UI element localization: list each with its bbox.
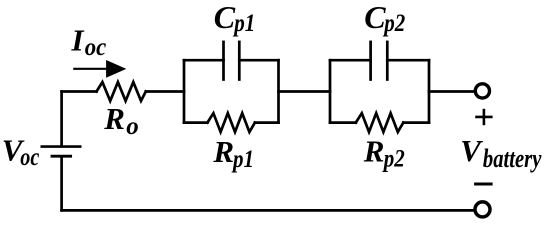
svg-text:p2: p2 xyxy=(382,146,405,173)
svg-text:battery: battery xyxy=(483,144,542,173)
svg-text:p1: p1 xyxy=(233,10,256,37)
svg-text:p1: p1 xyxy=(231,146,254,173)
svg-text:o: o xyxy=(126,113,139,140)
svg-text:oc: oc xyxy=(20,144,39,171)
svg-text:C: C xyxy=(214,0,236,35)
svg-text:R: R xyxy=(363,134,385,169)
svg-text:oc: oc xyxy=(85,34,107,61)
svg-text:R: R xyxy=(212,134,234,169)
svg-text:V: V xyxy=(460,133,483,168)
svg-text:p2: p2 xyxy=(383,10,406,37)
svg-text:R: R xyxy=(103,101,125,136)
svg-text:C: C xyxy=(364,0,386,35)
svg-text:I: I xyxy=(71,23,85,58)
